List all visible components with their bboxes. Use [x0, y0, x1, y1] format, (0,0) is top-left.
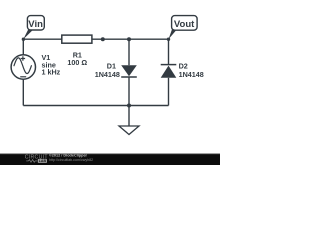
- wire D2 branch bottom: [168, 78, 170, 106]
- svg-text:Vin: Vin: [28, 19, 43, 30]
- svg-text:1 kHz: 1 kHz: [42, 68, 61, 77]
- watermark bar: [0, 0, 1, 1]
- resistor R1: [62, 35, 92, 43]
- R1 label: [67, 50, 87, 67]
- diode D2: [161, 65, 177, 78]
- node junction D1 top: [127, 37, 131, 41]
- circuitlab logo LAB badge: [38, 159, 47, 163]
- wire D2 branch top: [168, 39, 170, 64]
- wire top right segment: [92, 38, 169, 40]
- wire top left segment: [23, 38, 62, 40]
- voltage source V1: [11, 55, 35, 79]
- wire left rail lower: [22, 80, 24, 106]
- wire left rail upper: [22, 39, 24, 54]
- node junction dot on top wire: [101, 37, 105, 41]
- circuitlab logo wordmark: [25, 154, 49, 160]
- circuitlab logo zigzag: [26, 160, 37, 163]
- D1 label: [95, 61, 120, 79]
- wire ground stem: [128, 106, 130, 127]
- node junction D1 bottom: [127, 104, 131, 108]
- V1 label: [42, 53, 61, 77]
- svg-text:LAB: LAB: [39, 159, 47, 163]
- svg-text:Vout: Vout: [174, 19, 195, 30]
- node flag Vin: [22, 16, 45, 41]
- wire D1 branch bottom: [128, 77, 130, 106]
- svg-text:100 Ω: 100 Ω: [67, 58, 87, 67]
- svg-text:http://circuitlab.com/cwyh82: http://circuitlab.com/cwyh82: [49, 158, 93, 162]
- node flag Vout: [167, 16, 197, 41]
- watermark text line 1: [49, 154, 93, 162]
- D2 label: [179, 61, 204, 79]
- diode D1: [121, 65, 137, 77]
- wire D1 branch top: [128, 39, 130, 65]
- ground: [119, 126, 139, 135]
- svg-text:1N4148: 1N4148: [179, 70, 204, 79]
- wire bottom rail: [23, 105, 168, 107]
- svg-text:1N4148: 1N4148: [95, 70, 120, 79]
